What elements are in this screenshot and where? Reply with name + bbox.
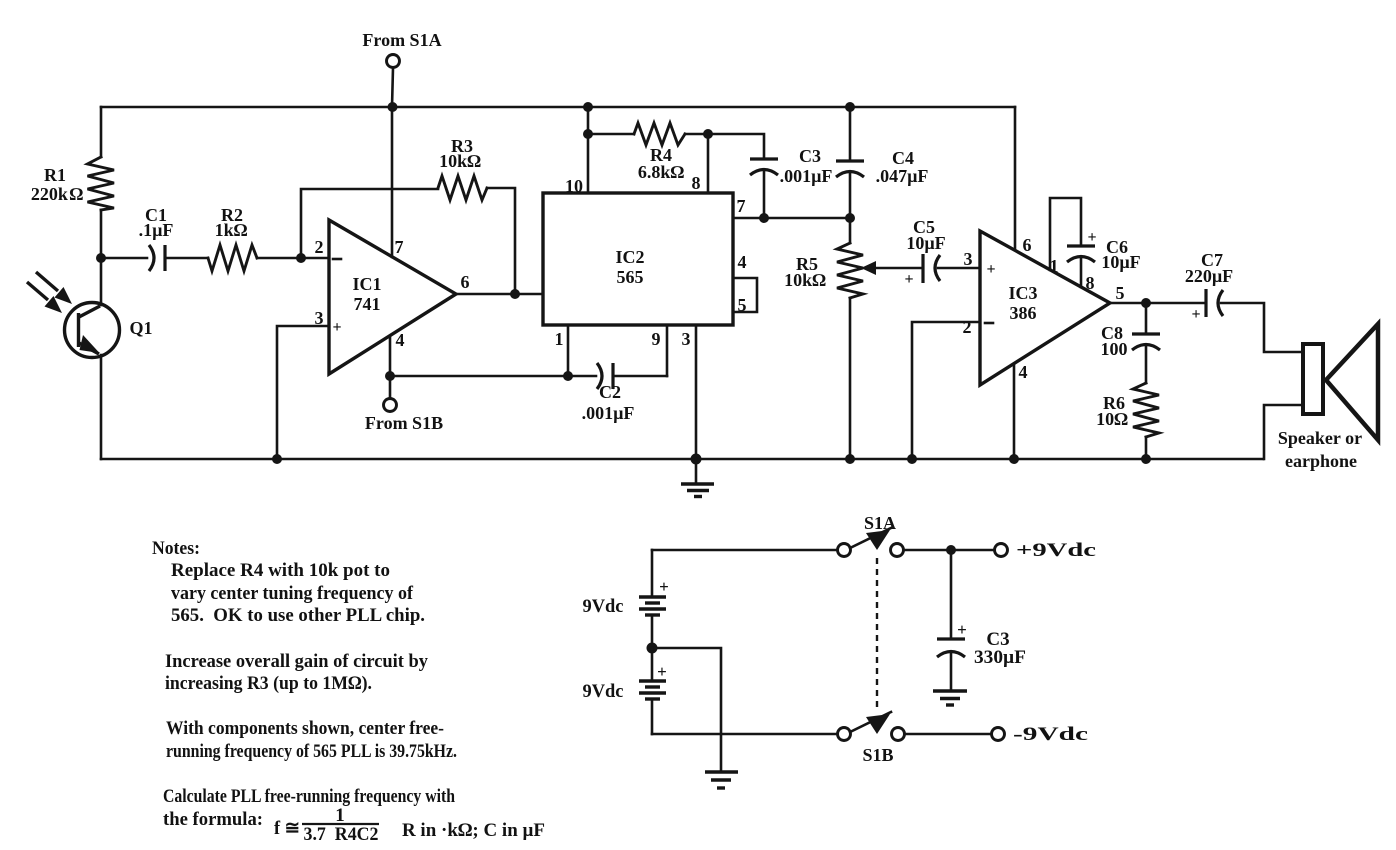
light arrow 1 into Q1	[36, 272, 72, 304]
svg-text:Increase overall gain of circu: Increase overall gain of circuit by	[165, 651, 428, 672]
switch S1A	[838, 513, 904, 557]
svg-text:earphone: earphone	[1285, 451, 1357, 471]
wire pin10 supply	[565, 107, 588, 196]
svg-text:8: 8	[1086, 273, 1095, 293]
svg-text:C4: C4	[892, 148, 914, 168]
ground (battery midpoint)	[705, 772, 738, 788]
svg-text:10Ω: 10Ω	[1096, 409, 1128, 429]
svg-text:9: 9	[652, 329, 661, 349]
light arrow 2 into Q1	[27, 282, 62, 313]
svg-text:Speaker or: Speaker or	[1278, 428, 1362, 448]
battery B2 9Vdc	[583, 648, 667, 734]
svg-text:2: 2	[315, 237, 324, 257]
node R5 rail junction	[845, 454, 855, 464]
node output junction	[510, 289, 520, 299]
wire battery top to S1A	[652, 549, 837, 552]
resistor R6	[1096, 383, 1159, 459]
terminal From S1B	[365, 399, 443, 434]
svg-text:running frequency of 565 PLL i: running frequency of 565 PLL is 39.75kHz…	[166, 741, 457, 762]
wire speaker lower branch	[1264, 405, 1303, 459]
capacitor C5	[904, 217, 980, 288]
svg-text:C2: C2	[599, 382, 621, 402]
capacitor C1	[101, 205, 208, 271]
svg-text:.001µF: .001µF	[582, 403, 635, 423]
svg-text:R1: R1	[44, 165, 66, 185]
node output C8 junction	[1141, 298, 1151, 308]
svg-text:1: 1	[335, 805, 345, 826]
battery B1 9Vdc	[583, 550, 669, 648]
wire battery bottom to S1B	[652, 733, 837, 736]
svg-text:+: +	[657, 662, 667, 681]
potentiometer R5	[784, 218, 921, 459]
svg-text:From S1A: From S1A	[362, 30, 441, 50]
svg-text:With components shown, center: With components shown, center free-	[166, 718, 444, 739]
svg-text:C3: C3	[799, 146, 821, 166]
svg-text:+: +	[1087, 229, 1096, 246]
svg-text:S1A: S1A	[864, 513, 896, 533]
svg-text:+9Vdc: +9Vdc	[1016, 540, 1096, 561]
formula f = 1/(3.7 R4C2)	[274, 805, 545, 845]
wire pin2 to ground rail	[912, 322, 980, 459]
capacitor C3 (.001uF)	[750, 146, 832, 218]
svg-text:+: +	[957, 620, 967, 639]
speaker	[1278, 324, 1378, 471]
svg-text:4: 4	[396, 330, 405, 350]
node R6 rail junction	[1141, 454, 1151, 464]
wire IC1 output	[456, 293, 543, 296]
svg-text:IC2: IC2	[615, 247, 644, 267]
node pin4 junction	[385, 371, 395, 381]
capacitor C4	[836, 107, 928, 218]
svg-text:From S1B: From S1B	[365, 413, 443, 433]
svg-text:3: 3	[964, 249, 973, 269]
svg-text:Notes:: Notes:	[152, 538, 200, 559]
capacitor C3 (330uF)	[937, 550, 1026, 691]
node R4 left junction	[583, 129, 593, 139]
op-amp U3 (IC3 386)	[963, 231, 1125, 385]
node C3 pin7 junction	[759, 213, 769, 223]
resistor R4	[588, 123, 708, 182]
resistor R2	[208, 205, 329, 271]
svg-text:IC3: IC3	[1008, 283, 1037, 303]
node C4 rail junction	[845, 102, 855, 112]
svg-text:+: +	[986, 261, 995, 278]
svg-text:Replace R4 with 10k pot to: Replace R4 with 10k pot to	[171, 560, 390, 581]
svg-text:IC1: IC1	[352, 274, 381, 294]
svg-text:vary center tuning frequency o: vary center tuning frequency of	[171, 583, 414, 604]
svg-text:220µF: 220µF	[1185, 266, 1233, 286]
svg-text:9Vdc: 9Vdc	[583, 596, 624, 617]
svg-text:10: 10	[565, 176, 583, 196]
wire pins 4-5 jumper	[733, 252, 757, 315]
node pin7 rail junction	[388, 102, 398, 112]
svg-text:3: 3	[682, 329, 691, 349]
resistor R3	[438, 136, 515, 294]
capacitor C2	[568, 363, 667, 423]
wire pin4 down	[389, 336, 392, 398]
node R4 right junction	[703, 129, 713, 139]
svg-text:10µF: 10µF	[1101, 252, 1140, 272]
svg-text:S1B: S1B	[862, 745, 893, 765]
wire pin4 IC3 to rail	[1013, 364, 1016, 459]
wire pin9 down	[652, 325, 668, 376]
wire R4 node to C3	[708, 134, 764, 159]
node pin3 ground junction	[272, 454, 282, 464]
svg-text:4: 4	[738, 252, 747, 272]
op-amp U1 (IC1 741)	[315, 220, 470, 374]
svg-text:100: 100	[1101, 339, 1128, 359]
svg-text:-9Vdc: -9Vdc	[1013, 724, 1088, 745]
wire pin1 down	[555, 325, 569, 376]
svg-text:+: +	[332, 319, 341, 336]
capacitor C7	[1185, 250, 1303, 352]
node pin2 rail junction	[907, 454, 917, 464]
wire pin6 supply from rail	[1014, 107, 1017, 250]
svg-text:7: 7	[395, 237, 404, 257]
svg-text:5: 5	[1116, 283, 1125, 303]
node pin2 junction	[296, 253, 306, 263]
resistor R1	[31, 107, 114, 258]
node A (R1/C1/Q1 junction)	[96, 253, 106, 263]
svg-text:f ≅: f ≅	[274, 818, 300, 839]
svg-text:3.7 R4C2: 3.7 R4C2	[304, 824, 379, 845]
wire IC3 output	[1110, 302, 1204, 305]
svg-text:386: 386	[1010, 303, 1037, 323]
wire pin4 to C2	[390, 375, 568, 378]
node pin1 C2 junction	[563, 371, 573, 381]
svg-text:Calculate PLL free-running fre: Calculate PLL free-running frequency wit…	[163, 786, 455, 807]
svg-text:9Vdc: 9Vdc	[583, 681, 624, 702]
svg-text:.1µF: .1µF	[139, 220, 174, 240]
wire feedback from pin2 node up	[301, 189, 438, 258]
svg-text:2: 2	[963, 317, 972, 337]
notes text block	[152, 538, 457, 830]
svg-text:6: 6	[461, 272, 470, 292]
transistor Q1 (phototransistor)	[65, 258, 153, 459]
ground (C3)	[933, 691, 967, 705]
svg-text:220k Ω: 220k Ω	[31, 184, 84, 204]
svg-text:7: 7	[737, 196, 746, 216]
capacitor C8	[1101, 303, 1161, 383]
wire midpoint to ground	[652, 648, 721, 772]
svg-text:10kΩ: 10kΩ	[439, 151, 481, 171]
svg-text:the formula:: the formula:	[163, 809, 263, 830]
svg-text:1: 1	[555, 329, 564, 349]
node battery midpoint	[647, 643, 658, 654]
svg-text:6.8kΩ: 6.8kΩ	[638, 162, 685, 182]
svg-text:741: 741	[354, 294, 381, 314]
wire S1B to -9Vdc terminal	[905, 733, 991, 736]
svg-text:565: 565	[617, 267, 644, 287]
wire pin3 IC2 to ground rail	[682, 325, 697, 459]
terminal From S1A	[362, 30, 441, 68]
svg-text:8: 8	[692, 173, 701, 193]
wire pin7 out	[733, 196, 850, 218]
node pin10 rail junction	[583, 102, 593, 112]
svg-text:+: +	[1191, 306, 1200, 323]
svg-text:10kΩ: 10kΩ	[784, 270, 826, 290]
capacitor C6	[1067, 229, 1141, 287]
wire pin3 input	[277, 326, 329, 459]
svg-text:4: 4	[1019, 362, 1028, 382]
wire pin7 supply	[392, 68, 393, 257]
node pin4 rail junction	[1009, 454, 1019, 464]
wire pin8	[692, 134, 709, 193]
svg-text:10µF: 10µF	[906, 233, 945, 253]
svg-text:+: +	[659, 577, 669, 596]
wire pin1 bracket	[1050, 198, 1081, 270]
terminal +9Vdc	[995, 540, 1097, 561]
wire S1A dashed gang link	[876, 558, 878, 707]
wire top +V rail	[101, 106, 1015, 109]
node IC2 pin3 rail junction	[691, 454, 702, 465]
node C4 pin7 junction	[845, 213, 855, 223]
svg-text:6: 6	[1023, 235, 1032, 255]
terminal -9Vdc	[992, 724, 1089, 745]
IC U2 (IC2 565 PLL)	[543, 193, 733, 325]
svg-text:+: +	[904, 271, 913, 288]
svg-text:565. OK to use other PLL chip: 565. OK to use other PLL chip.	[171, 605, 425, 626]
svg-text:increasing R3 (up to 1MΩ).: increasing R3 (up to 1MΩ).	[165, 673, 372, 694]
svg-text:1kΩ: 1kΩ	[215, 220, 248, 240]
wire bottom ground rail	[101, 458, 1263, 461]
svg-text:5: 5	[738, 295, 747, 315]
svg-text:.001µF: .001µF	[780, 166, 833, 186]
svg-text:R in ·kΩ; C in µF: R in ·kΩ; C in µF	[402, 820, 545, 841]
switch S1B	[838, 712, 905, 765]
wire S1A to +9Vdc terminal	[904, 549, 994, 552]
svg-text:.047µF: .047µF	[876, 166, 929, 186]
node C3 supply junction	[946, 545, 956, 555]
svg-text:Q1: Q1	[129, 318, 152, 338]
ground (main)	[681, 459, 714, 497]
svg-text:330µF: 330µF	[974, 647, 1026, 668]
